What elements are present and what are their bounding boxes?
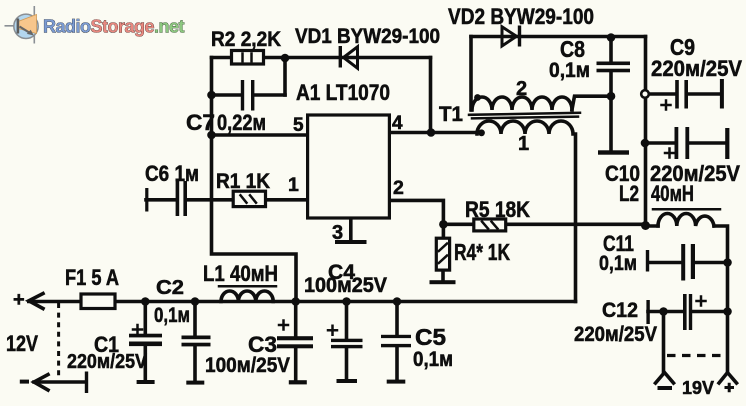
svg-text:2: 2 — [516, 78, 527, 100]
svg-text:40мН: 40мН — [651, 181, 694, 206]
svg-text:VD2 BYW29-100: VD2 BYW29-100 — [448, 4, 594, 29]
svg-text:0,1м: 0,1м — [549, 59, 590, 82]
svg-text:5: 5 — [293, 115, 304, 136]
svg-text:C2: C2 — [156, 277, 184, 299]
svg-text:0,1м: 0,1м — [413, 348, 453, 371]
svg-text:C12: C12 — [602, 299, 638, 322]
svg-text:0,1м: 0,1м — [154, 304, 190, 327]
svg-text:C7: C7 — [186, 110, 215, 135]
svg-text:220м/25V: 220м/25V — [651, 56, 742, 81]
svg-text:100м25V: 100м25V — [304, 274, 387, 297]
svg-text:100м/25V: 100м/25V — [205, 354, 290, 377]
svg-text:0,22м: 0,22м — [217, 110, 266, 135]
svg-text:19V: 19V — [682, 378, 714, 398]
svg-text:A1 LT1070: A1 LT1070 — [296, 80, 390, 105]
svg-text:4: 4 — [392, 113, 403, 134]
svg-text:T1: T1 — [439, 103, 463, 126]
svg-text:12V: 12V — [6, 331, 38, 356]
svg-text:L1 40мН: L1 40мН — [203, 261, 278, 286]
svg-text:0,1м: 0,1м — [599, 252, 637, 275]
svg-text:+: + — [13, 289, 25, 311]
svg-text:220м/25V: 220м/25V — [574, 323, 657, 346]
svg-text:R2 2,2K: R2 2,2K — [211, 28, 281, 51]
svg-text:C6 1м: C6 1м — [145, 161, 199, 186]
svg-text:R4* 1K: R4* 1K — [454, 239, 510, 265]
svg-text:VD1 BYW29-100: VD1 BYW29-100 — [295, 25, 440, 48]
svg-text:RadioStorage.net: RadioStorage.net — [43, 16, 185, 36]
svg-text:1: 1 — [518, 133, 529, 155]
svg-text:R5 18K: R5 18K — [465, 197, 530, 222]
svg-text:L2: L2 — [619, 181, 639, 206]
svg-text:F1 5 A: F1 5 A — [65, 265, 119, 290]
svg-text:220м/25V: 220м/25V — [67, 351, 148, 373]
svg-text:2: 2 — [393, 177, 404, 199]
svg-text:C5: C5 — [415, 324, 446, 350]
svg-text:1: 1 — [288, 174, 299, 196]
svg-text:R1 1K: R1 1K — [216, 170, 270, 193]
svg-text:3: 3 — [332, 222, 343, 244]
